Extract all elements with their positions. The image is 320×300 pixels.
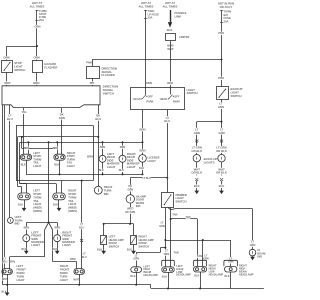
svg-text:BRN: BRN xyxy=(70,258,76,261)
svg-text:STOP/: STOP/ xyxy=(68,192,76,196)
svg-text:BLK: BLK xyxy=(53,203,58,206)
svg-text:BLK: BLK xyxy=(130,275,135,278)
svg-text:OR BLK: OR BLK xyxy=(216,171,227,175)
svg-text:LINK: LINK xyxy=(175,15,182,19)
svg-text:IND: IND xyxy=(136,204,141,208)
svg-text:PARK: PARK xyxy=(146,100,153,104)
svg-text:GRN: GRN xyxy=(228,261,234,264)
svg-text:BLK: BLK xyxy=(21,248,26,251)
svg-text:HEADLAMP: HEADLAMP xyxy=(209,272,224,276)
svg-text:PNK: PNK xyxy=(218,76,224,80)
svg-text:GRN: GRN xyxy=(133,258,139,261)
svg-text:DK GRN: DK GRN xyxy=(125,211,135,214)
svg-text:TURN: TURN xyxy=(224,9,232,13)
svg-text:(W/RS): (W/RS) xyxy=(33,209,42,213)
svg-text:IND: IND xyxy=(15,222,20,226)
svg-text:WHT: WHT xyxy=(2,278,8,281)
svg-text:ORN: ORN xyxy=(34,24,40,28)
svg-text:FUSE: FUSE xyxy=(224,16,231,20)
svg-text:LIGHTS: LIGHTS xyxy=(204,161,215,165)
svg-text:BRN: BRN xyxy=(33,81,39,85)
svg-text:SWITCH: SWITCH xyxy=(109,245,120,249)
svg-text:OR BLK: OR BLK xyxy=(191,149,202,153)
svg-text:BLU: BLU xyxy=(164,119,170,123)
svg-text:ORN: ORN xyxy=(3,56,9,60)
svg-text:SWITCH: SWITCH xyxy=(139,245,150,249)
svg-text:HEADLAMP: HEADLAMP xyxy=(239,272,254,276)
svg-text:BRN: BRN xyxy=(24,227,30,230)
svg-text:BLK: BLK xyxy=(18,203,23,206)
svg-text:20A: 20A xyxy=(148,16,153,20)
svg-text:TAN: TAN xyxy=(197,255,202,258)
svg-text:LT: LT xyxy=(219,102,222,106)
svg-text:B/U: B/U xyxy=(224,13,229,17)
svg-text:SWITCH: SWITCH xyxy=(231,94,242,98)
svg-text:BLU: BLU xyxy=(79,226,84,229)
svg-text:LIMITER: LIMITER xyxy=(179,35,190,39)
svg-text:GRN: GRN xyxy=(218,131,224,135)
svg-text:RIGHT: RIGHT xyxy=(68,189,77,193)
svg-text:YEL: YEL xyxy=(21,110,27,114)
svg-text:IND: IND xyxy=(257,255,262,259)
svg-text:BLK: BLK xyxy=(54,164,59,167)
svg-text:ALL TIMES: ALL TIMES xyxy=(30,5,45,9)
svg-text:BRN: BRN xyxy=(139,127,145,131)
svg-text:LIGHT: LIGHT xyxy=(107,165,116,169)
svg-text:(INBD): (INBD) xyxy=(68,206,76,210)
svg-text:FLASHER: FLASHER xyxy=(44,66,57,70)
svg-text:TURN: TURN xyxy=(17,274,25,278)
svg-text:HI: HI xyxy=(257,248,260,252)
svg-text:PNK: PNK xyxy=(86,61,92,65)
svg-text:IND: IND xyxy=(104,192,109,196)
svg-text:LIGHT: LIGHT xyxy=(33,202,41,206)
svg-text:TURN: TURN xyxy=(60,274,68,278)
svg-text:TURN/: TURN/ xyxy=(33,195,41,199)
svg-text:LEFT: LEFT xyxy=(33,189,40,193)
svg-text:GRN: GRN xyxy=(59,116,65,120)
svg-text:GRN: GRN xyxy=(159,225,165,228)
svg-text:STOP/: STOP/ xyxy=(33,192,41,196)
svg-text:OFF: OFF xyxy=(148,94,154,98)
svg-text:HEADLAMP: HEADLAMP xyxy=(176,273,191,277)
svg-text:SWITCH: SWITCH xyxy=(103,91,114,95)
svg-text:20A: 20A xyxy=(224,20,229,24)
svg-text:LT BLU: LT BLU xyxy=(142,177,151,180)
svg-text:BLK: BLK xyxy=(162,275,167,278)
svg-text:ORN: ORN xyxy=(146,81,152,85)
svg-text:BLU: BLU xyxy=(2,261,7,264)
svg-text:BEAM: BEAM xyxy=(257,251,266,255)
svg-text:OR BLK: OR BLK xyxy=(216,149,227,153)
svg-text:TAIL: TAIL xyxy=(68,199,74,203)
svg-text:LIGHT: LIGHT xyxy=(68,202,76,206)
svg-text:BLK: BLK xyxy=(119,169,124,172)
svg-text:BLK: BLK xyxy=(52,248,57,251)
svg-text:BLK: BLK xyxy=(194,275,199,278)
svg-text:PARK/: PARK/ xyxy=(17,271,25,275)
svg-text:SWITCH: SWITCH xyxy=(14,68,25,72)
svg-text:BRN: BRN xyxy=(120,146,126,149)
svg-text:RIGHT: RIGHT xyxy=(60,264,69,268)
svg-text:ALL TIMES: ALL TIMES xyxy=(163,5,178,9)
svg-text:LEFT: LEFT xyxy=(17,264,24,268)
svg-text:GRN: GRN xyxy=(218,105,224,109)
svg-text:BLK: BLK xyxy=(21,164,26,167)
svg-text:BRN: BRN xyxy=(87,154,93,158)
svg-text:HEADLAMP: HEADLAMP xyxy=(144,273,159,277)
svg-text:TAN: TAN xyxy=(173,250,178,254)
svg-text:PPL: PPL xyxy=(90,81,96,85)
svg-text:LIGHT: LIGHT xyxy=(148,159,157,163)
svg-text:BRN: BRN xyxy=(9,261,15,264)
svg-text:BRN: BRN xyxy=(53,147,59,150)
svg-text:TURN/: TURN/ xyxy=(68,195,76,199)
svg-text:BRN: BRN xyxy=(100,146,106,149)
svg-text:LIGHT: LIGHT xyxy=(127,165,136,169)
svg-text:SWITCH: SWITCH xyxy=(187,91,198,95)
svg-text:FRONT: FRONT xyxy=(60,268,70,272)
svg-text:BLU: BLU xyxy=(95,117,101,121)
svg-text:LIGHT: LIGHT xyxy=(17,278,25,282)
svg-text:BLK: BLK xyxy=(219,184,225,188)
svg-text:GRN: GRN xyxy=(164,253,170,256)
svg-text:BLK: BLK xyxy=(167,28,173,32)
svg-text:GRN: GRN xyxy=(250,244,256,247)
svg-text:(INBD): (INBD) xyxy=(33,206,41,210)
svg-text:RED: RED xyxy=(167,81,173,85)
svg-text:TAN: TAN xyxy=(172,213,177,217)
svg-text:PNK: PNK xyxy=(218,31,224,35)
svg-text:OFF: OFF xyxy=(174,94,180,98)
svg-text:20A: 20A xyxy=(39,18,44,22)
svg-text:HEAD: HEAD xyxy=(133,97,140,101)
svg-text:WHT: WHT xyxy=(4,81,11,85)
svg-text:TAN: TAN xyxy=(186,216,191,219)
svg-text:GRN: GRN xyxy=(194,131,200,135)
svg-text:LIGHT: LIGHT xyxy=(62,243,71,247)
svg-text:LIGHT: LIGHT xyxy=(60,278,68,282)
svg-text:FRONT: FRONT xyxy=(17,268,27,272)
svg-text:OR ACCY: OR ACCY xyxy=(220,5,233,9)
svg-text:BLK: BLK xyxy=(225,275,230,278)
svg-text:HEAD: HEAD xyxy=(160,97,167,101)
svg-text:BLK: BLK xyxy=(139,167,144,170)
svg-text:FLASHER: FLASHER xyxy=(102,73,115,77)
svg-text:BLU: BLU xyxy=(7,117,13,121)
svg-text:LIGHT: LIGHT xyxy=(67,164,75,168)
svg-text:PARK/: PARK/ xyxy=(60,271,68,275)
svg-text:ALL TIMES: ALL TIMES xyxy=(139,5,154,9)
svg-text:BLK: BLK xyxy=(99,169,104,172)
svg-text:ORN: ORN xyxy=(33,56,39,60)
svg-text:BRN: BRN xyxy=(139,149,145,153)
svg-text:LIGHT: LIGHT xyxy=(31,243,40,247)
svg-text:PARK: PARK xyxy=(173,100,180,104)
svg-text:BLK: BLK xyxy=(194,184,200,188)
svg-text:TAIL: TAIL xyxy=(33,199,39,203)
svg-text:BLU: BLU xyxy=(82,256,87,259)
svg-text:GRN: GRN xyxy=(128,189,134,192)
svg-text:SWITCH: SWITCH xyxy=(176,200,187,204)
svg-text:(W/RS): (W/RS) xyxy=(68,209,77,213)
svg-text:LIGHT: LIGHT xyxy=(33,164,41,168)
svg-text:BRN: BRN xyxy=(54,227,60,230)
svg-text:WHT: WHT xyxy=(73,278,79,281)
svg-text:OR BLK: OR BLK xyxy=(191,171,202,175)
svg-text:BRN: BRN xyxy=(24,147,30,150)
